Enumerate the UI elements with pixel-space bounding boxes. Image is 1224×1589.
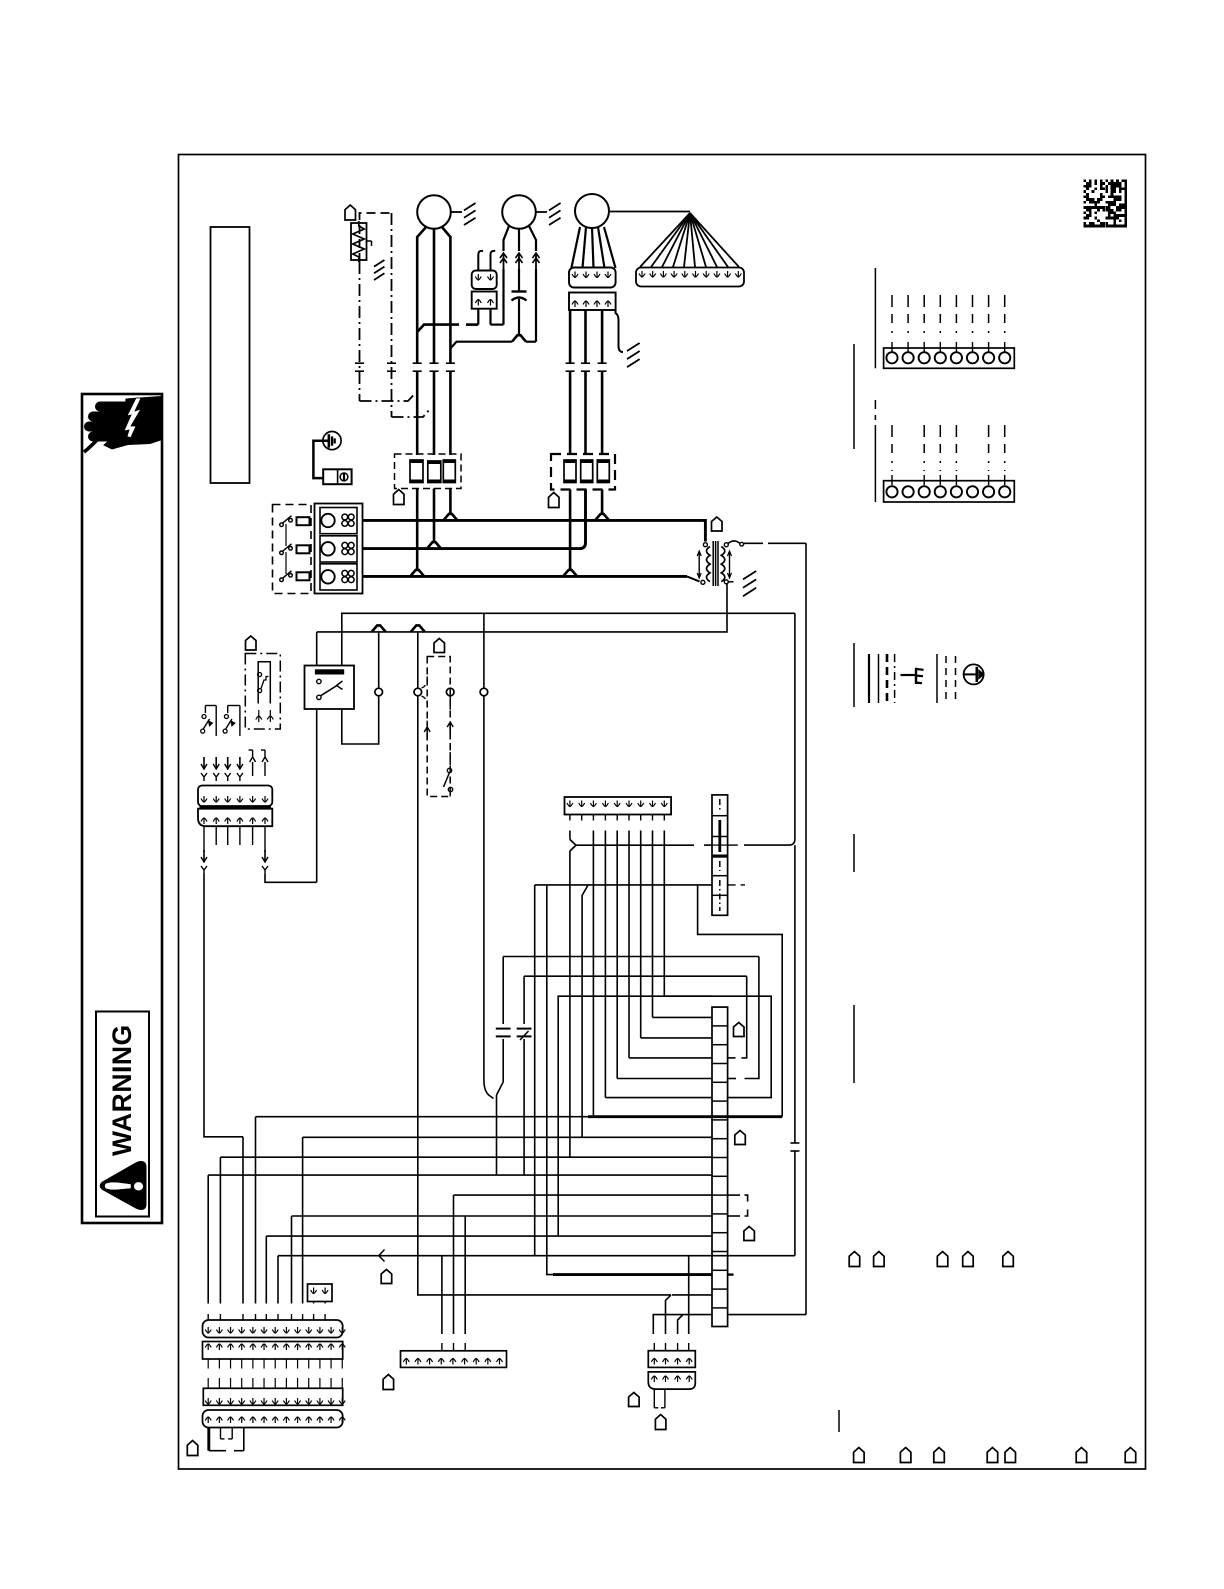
contactor CC box — [315, 504, 363, 594]
legend line dashdot — [894, 654, 896, 703]
flag FB1 — [394, 490, 405, 505]
wire nest CN1 rows to ladder — [605, 1097, 712, 1099]
limit switch pins — [258, 716, 260, 722]
flag TB3 — [744, 1227, 755, 1241]
terminal strip TS2 — [884, 481, 1015, 502]
relay R1 coil bar — [315, 670, 343, 674]
wire control feed — [342, 613, 795, 665]
capacitor C2 — [496, 1028, 511, 1030]
wire rung 1137.3 — [303, 1136, 712, 1138]
contactor pole 3 — [320, 564, 357, 590]
connector LVC row2 — [198, 809, 272, 827]
legend earth symbol — [964, 664, 984, 684]
wire rung 1157.2 — [220, 1156, 712, 1158]
ground M1 — [451, 211, 462, 213]
wire rung 1236.1 — [266, 1235, 712, 1237]
wire J4 drop merge — [483, 696, 485, 1080]
wire M3 leads fan — [571, 227, 580, 268]
wire TS1 left — [874, 268, 876, 368]
motor M2 — [502, 195, 536, 229]
node tap to plug J1 — [372, 625, 386, 632]
transformer T1 core — [712, 541, 714, 586]
wire CN3 tails — [653, 1389, 655, 1408]
thermostat wire arrows — [203, 757, 205, 769]
wire M3 to harness — [609, 211, 690, 213]
transformer T1 primary terminals — [703, 543, 707, 547]
plug J4 — [480, 688, 488, 696]
resistor HTR — [351, 223, 367, 260]
limit switch body — [258, 662, 270, 704]
wire L3 bus — [363, 575, 688, 578]
plug P2 upper — [569, 268, 616, 288]
wire M2 plug leads down — [502, 269, 504, 325]
ground transformer — [728, 581, 733, 583]
wire M1 lead1 to bus tap — [417, 325, 459, 332]
wire 688.7 drop — [688, 1256, 690, 1334]
wire secondary common down — [317, 584, 727, 632]
plug arrows M2 — [503, 253, 505, 269]
flag TB2 — [735, 1131, 746, 1145]
flag bottom 4 — [987, 1448, 998, 1463]
wire plug J4 drop — [483, 613, 485, 688]
heater enclosure dashed box — [360, 213, 392, 262]
wire FB1 to contactor bus — [416, 489, 419, 570]
limit switch dash-dot box — [245, 654, 280, 730]
wire LVC pin6 — [264, 826, 266, 852]
motor M3 — [575, 194, 609, 228]
wire rung 1175.1 — [208, 1174, 712, 1176]
connector MC rows — [203, 1320, 343, 1338]
wire CN3 stubs — [653, 1343, 655, 1351]
plug small P3 — [308, 1284, 333, 1302]
connector CN3 lower — [648, 1372, 695, 1389]
flag bottom 2 — [900, 1448, 911, 1463]
pressure switch contact — [447, 768, 451, 772]
wire M1 leads — [417, 227, 426, 238]
border frame of schematic — [179, 155, 1146, 1470]
earth stud wire — [313, 441, 328, 478]
wire 677.6 jog — [678, 1315, 683, 1334]
terminal board TB upper — [712, 795, 728, 915]
fuse F3 — [443, 460, 455, 483]
stray tick 854 — [853, 1005, 855, 1083]
flag CN2 bottom — [383, 1375, 394, 1390]
wire nest cap2 — [524, 975, 747, 977]
legend line solid 1 — [868, 654, 870, 703]
wire L2 bus — [363, 547, 581, 550]
motor M1 — [417, 195, 451, 229]
wire rung 1314.6 — [653, 1315, 712, 1334]
flag row mid 4 — [963, 1252, 974, 1267]
legend line dash bold — [886, 654, 889, 703]
legend box — [211, 227, 250, 483]
warning label outline — [82, 394, 162, 1223]
wire branch 582 drop — [582, 885, 588, 1137]
wire row 884.9 — [535, 884, 712, 886]
wire M2 leads — [504, 226, 510, 251]
node tap to plug J2 — [411, 625, 425, 632]
transformer T1 secondary coil — [721, 547, 725, 582]
flag TB1 — [734, 1023, 745, 1037]
contactor pole 2 — [320, 536, 357, 562]
connector MC pin marks — [207, 1327, 209, 1333]
disconnect pole 1 — [280, 523, 284, 527]
hand-shock pictogram — [84, 397, 161, 453]
fuse F5 — [581, 460, 593, 483]
flag bottom 6 — [1076, 1448, 1087, 1463]
fuse block FB1 dashed box — [395, 454, 462, 489]
harness fan-out — [640, 213, 690, 267]
wire J2 long drop — [417, 696, 419, 1289]
legend chassis ground — [901, 674, 916, 676]
contactor pole 1 — [320, 508, 357, 534]
wire 854 upper — [853, 344, 855, 449]
svg-text:WARNING: WARNING — [107, 1024, 137, 1156]
terminal board TB lower — [712, 1007, 728, 1326]
transformer arrows — [698, 552, 700, 577]
capacitor C1 — [518, 269, 520, 291]
flag limit switch — [246, 636, 257, 650]
connector LVC row1 — [198, 786, 272, 807]
flag bottom 3 — [934, 1448, 945, 1463]
wire heater dash-dot taps — [360, 394, 415, 401]
flag bottom 7 — [1125, 1448, 1136, 1463]
wire TS2 left — [874, 400, 876, 420]
flag row mid 5 — [1003, 1252, 1014, 1267]
legend line dash 3 — [955, 656, 957, 701]
wire L1 bus — [363, 519, 700, 522]
aux switch S2 — [228, 705, 240, 707]
wire P1 hooks — [478, 251, 483, 271]
ground M2 — [536, 211, 547, 213]
ground hook M3 — [616, 310, 624, 352]
flag row mid 3 — [937, 1252, 948, 1267]
plug P2 lower — [569, 293, 616, 311]
connector CN3 upper — [648, 1351, 695, 1368]
connector LVC divider — [200, 806, 272, 809]
pressure switch dashes — [422, 662, 428, 688]
fuse F4 — [564, 460, 576, 483]
legend tick 854 lower — [853, 834, 855, 872]
wire CN1 pin2-9 drops — [592, 831, 594, 1117]
wire rung 1216.0 — [292, 1215, 713, 1217]
pressure switch dashed box — [427, 657, 450, 797]
connector CN1 — [565, 797, 672, 815]
wire LVC pin1 long — [203, 826, 205, 852]
flag MC — [187, 1441, 198, 1456]
earth stud symbol — [323, 432, 341, 450]
disconnect pole 3 — [280, 578, 284, 582]
plug P1 upper — [472, 271, 497, 290]
break heater lines — [355, 362, 364, 364]
flag row mid 1 — [849, 1252, 860, 1267]
wire nest 558.2 — [558, 996, 771, 1236]
flag bottom 5 — [1005, 1448, 1016, 1463]
fuse F1 — [410, 460, 423, 483]
flag heater — [345, 205, 356, 220]
link rows 1195-1216 — [728, 1194, 740, 1196]
warning text box — [96, 1012, 149, 1217]
wire nest 697.6 — [698, 885, 783, 1117]
terminal strip TS1 — [884, 348, 1015, 368]
warning triangle icon — [100, 1162, 146, 1210]
wire rung 1195.1 — [454, 1194, 713, 1196]
wire L3 blade to transformer — [687, 576, 700, 581]
flag bottom 1 — [854, 1448, 865, 1463]
wire LVC stubs — [215, 826, 217, 845]
disconnect link — [285, 524, 287, 546]
fuse block FB2 dashed box — [551, 454, 615, 490]
fuse F2 — [428, 461, 441, 483]
ground heater — [371, 245, 373, 247]
wire MC feeds — [313, 1302, 315, 1304]
wire rung 1274.6 bold — [553, 1273, 712, 1276]
connector CN2 — [401, 1351, 507, 1368]
wire FB2 to bus — [569, 490, 572, 570]
plug J2 — [414, 688, 422, 696]
plug J1 — [375, 688, 383, 696]
relay R1 contacts — [317, 679, 321, 683]
legend tick 854 mid — [853, 643, 855, 707]
legend line solid 2 — [878, 654, 880, 703]
wire CN1 pins down — [569, 815, 571, 821]
wire through upper ladder — [712, 844, 728, 846]
transformer T1 primary coil — [707, 547, 711, 582]
flag pressure switch — [434, 639, 445, 653]
flag CN2 top — [381, 1270, 392, 1284]
wire rung 1255.7 — [278, 1255, 795, 1257]
wire 546.8 drop — [546, 885, 548, 1270]
earth stud box — [323, 469, 351, 484]
wire nest cap1 — [503, 956, 759, 958]
plug J3 — [446, 688, 454, 696]
data matrix barcode — [1084, 180, 1128, 228]
capacitor C3 polarized — [517, 1028, 532, 1030]
flag row mid 2 — [874, 1252, 885, 1267]
wire secondary hot — [728, 541, 740, 544]
wire M2 bus — [450, 342, 512, 349]
flag FB2 — [549, 493, 560, 508]
legend line dash 2 — [945, 656, 947, 701]
transformer secondary terminals — [724, 543, 728, 547]
fuse F6 — [597, 460, 609, 483]
limit switch contacts — [258, 673, 262, 677]
aux switch S1 — [205, 705, 216, 707]
legend line solid 3 — [936, 654, 938, 703]
flag CN3 left — [629, 1393, 640, 1407]
node CN1 pin1 junction — [569, 831, 571, 840]
stray tick 839 — [838, 1410, 840, 1432]
flag transformer — [712, 517, 723, 531]
relay R1 box — [305, 666, 355, 710]
flag CN3 bottom — [655, 1415, 666, 1430]
harness connector — [636, 268, 744, 287]
disconnect switch dashed box — [273, 505, 312, 594]
wire P1 pins down — [477, 309, 479, 325]
plug P1 lower — [472, 292, 497, 309]
wire below MC — [207, 1428, 210, 1451]
break right column — [790, 1142, 799, 1144]
wire relay loop — [342, 696, 379, 744]
wire M3 leads down — [569, 310, 572, 363]
disconnect pole 2 — [280, 551, 284, 555]
wire right columns — [805, 543, 807, 1314]
wire CN2 pins — [441, 1343, 443, 1351]
wire rung 1294.9 — [424, 1294, 671, 1296]
wire rung 1116.7 — [256, 1116, 589, 1118]
